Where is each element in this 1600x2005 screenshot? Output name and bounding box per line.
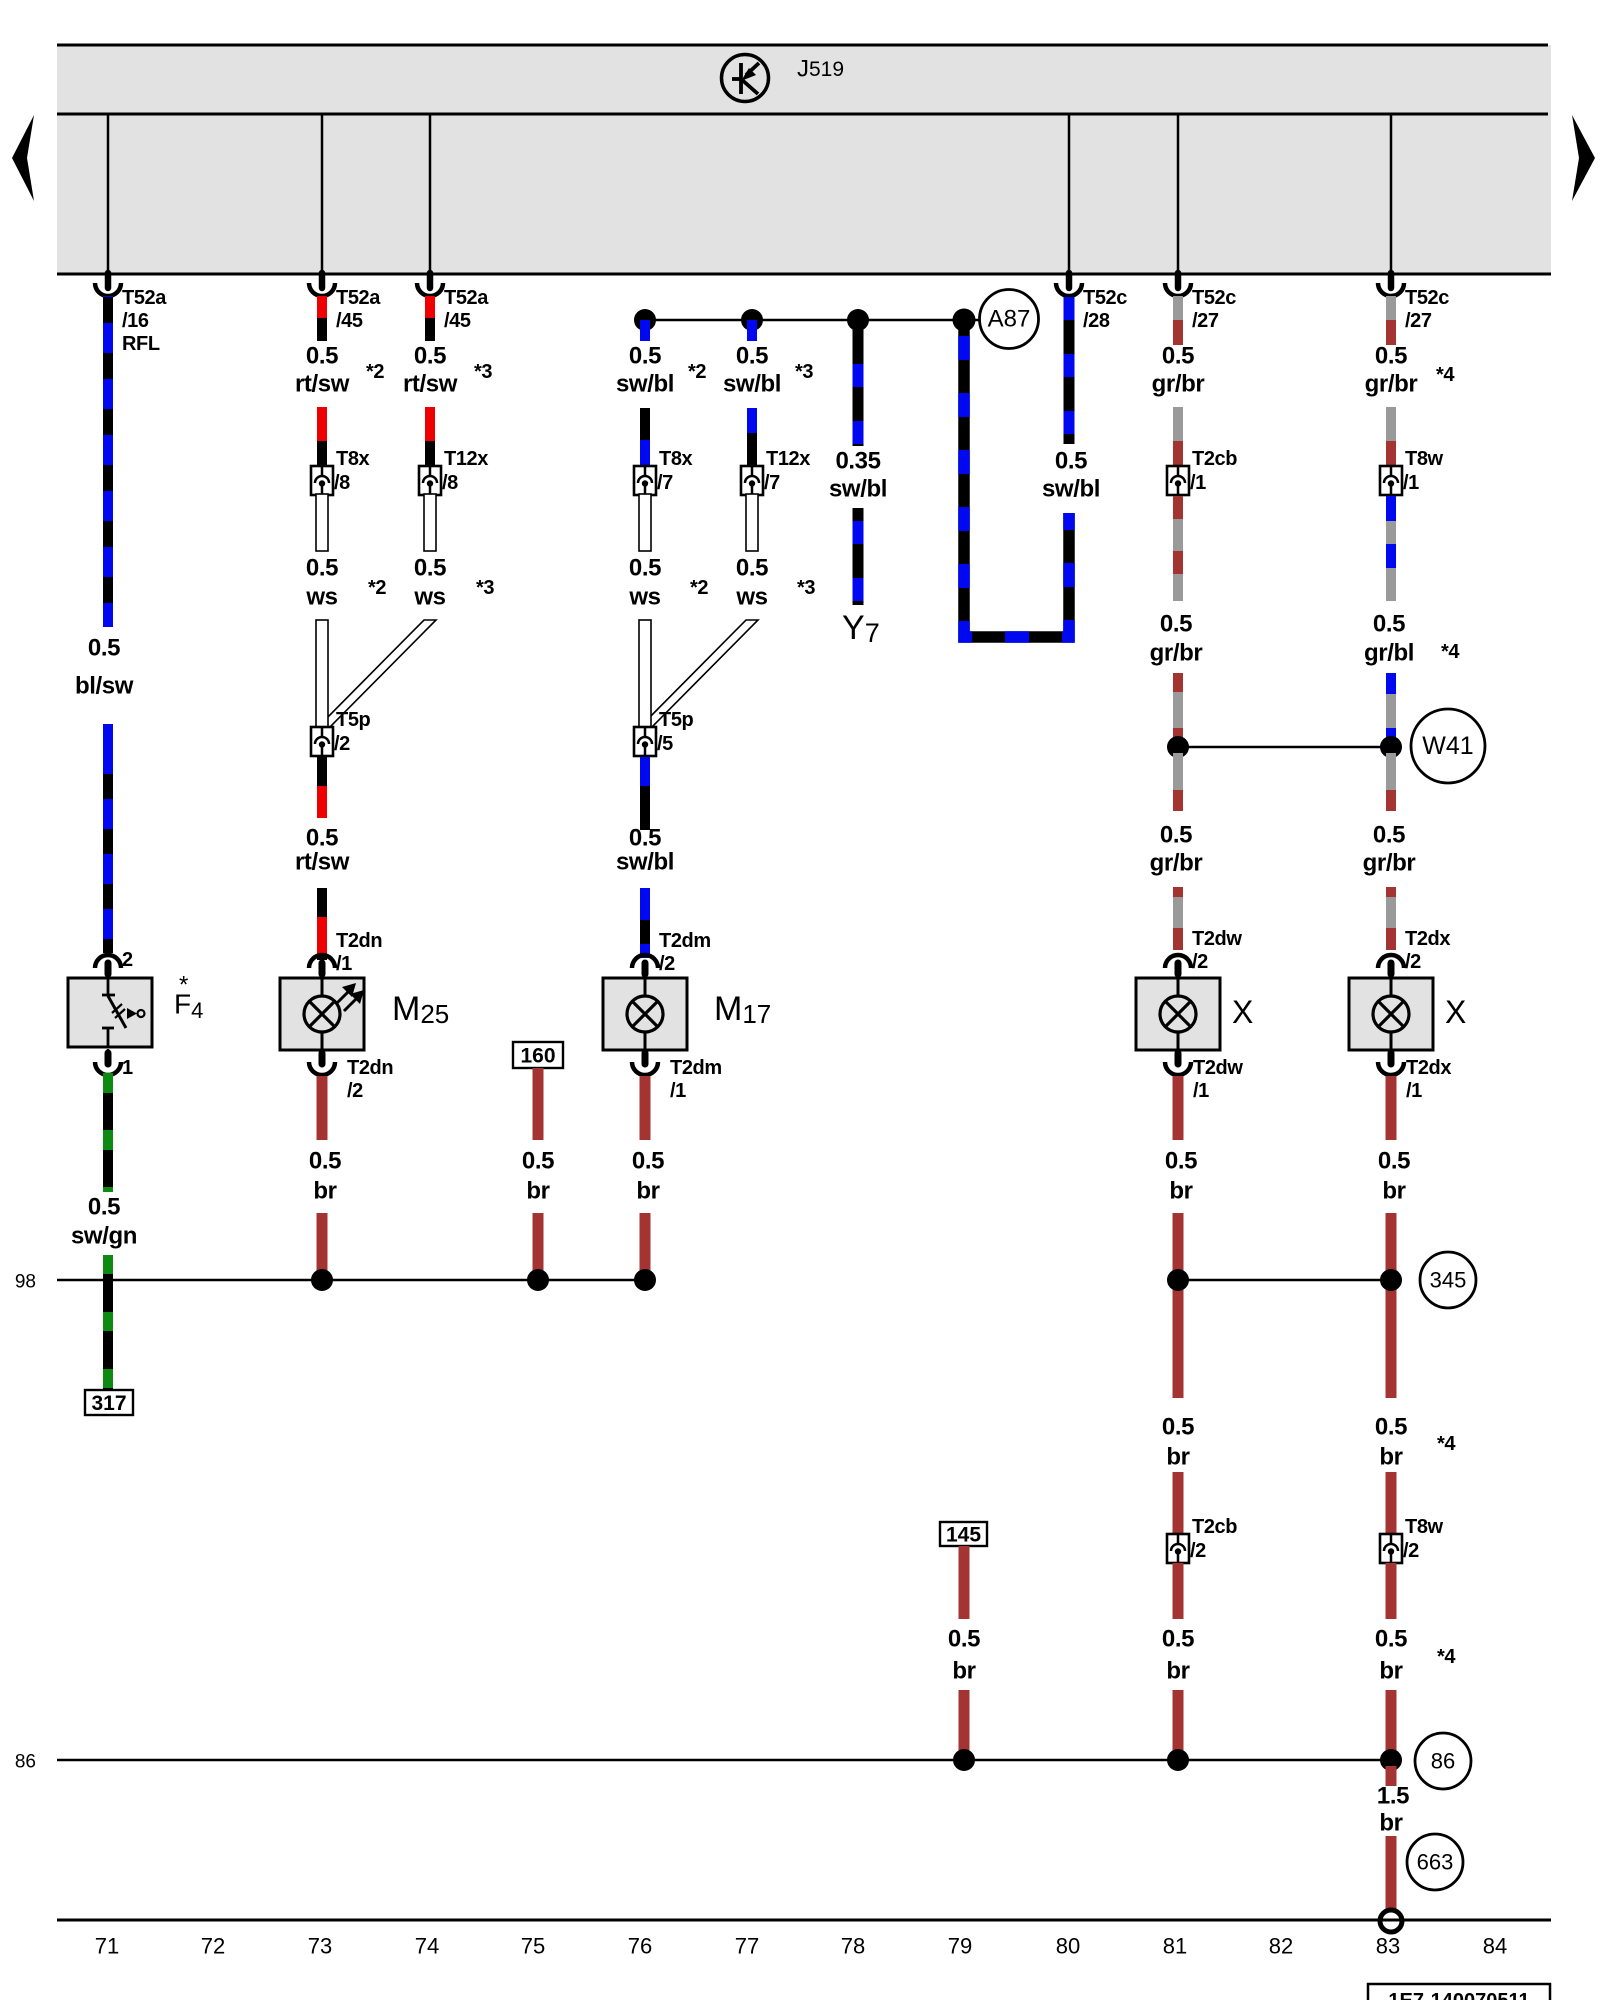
lamp M17 bottom pin T2dm/1 — [644, 1049, 647, 1058]
svg-text:T5p: T5p — [336, 709, 371, 731]
svg-text:80: 80 — [1056, 1934, 1080, 1959]
svg-text:0.35: 0.35 — [835, 448, 880, 475]
svg-text:br: br — [1166, 1444, 1189, 1471]
wire 0.5 ws diagonal from track 77 — [640, 620, 758, 727]
svg-text:0.5: 0.5 — [1165, 1148, 1197, 1175]
svg-text:83: 83 — [1376, 1934, 1400, 1959]
connector T8x/8 — [311, 466, 333, 495]
J519 internal wire track81 — [1177, 114, 1180, 274]
wire stub sw/bl (track 76) — [640, 320, 650, 341]
lamp M17 (tail lamp bulb) — [603, 978, 687, 1050]
svg-text:0.5: 0.5 — [1160, 822, 1192, 849]
wire 0.5 ws upper (track 77) — [746, 494, 758, 551]
junction dot track76 — [634, 309, 656, 331]
bus wire to A87 — [645, 319, 980, 322]
bottom rail — [57, 1919, 1551, 1922]
svg-text:145: 145 — [946, 1524, 981, 1547]
svg-text:79: 79 — [948, 1934, 972, 1959]
control unit J519 box — [57, 45, 1551, 273]
svg-text:W41: W41 — [1422, 732, 1473, 760]
svg-text:gr/bl: gr/bl — [1364, 640, 1414, 667]
connector T8w/1 — [1380, 466, 1402, 495]
svg-text:75: 75 — [521, 1934, 545, 1959]
svg-text:T52a: T52a — [444, 287, 489, 309]
connector T52c/27 pin at J519 (track 83) — [1388, 273, 1395, 288]
switch F4 bottom pin 1 — [107, 1049, 110, 1058]
wire 0.5 sw/bl to M17 — [640, 888, 650, 920]
wire 0.5 gr/br seg A (track 81) — [1173, 296, 1183, 320]
svg-text:0.5: 0.5 — [1375, 343, 1407, 370]
svg-text:0.5: 0.5 — [1055, 448, 1087, 475]
svg-text:T52a: T52a — [122, 287, 167, 309]
wire 0.5 br below lamp X right — [1386, 1076, 1397, 1140]
svg-text:0.5: 0.5 — [414, 343, 446, 370]
svg-text:*4: *4 — [1436, 364, 1455, 386]
svg-text:T2cb: T2cb — [1192, 1516, 1237, 1538]
svg-text:/1: /1 — [670, 1080, 686, 1102]
svg-text:0.5: 0.5 — [306, 825, 338, 852]
connector T5p/2 — [311, 727, 333, 756]
svg-text:T8x: T8x — [659, 448, 693, 470]
svg-text:ws: ws — [628, 584, 660, 611]
svg-text:*4: *4 — [1437, 1433, 1456, 1455]
svg-text:ws: ws — [413, 584, 445, 611]
svg-text:rt/sw: rt/sw — [295, 849, 350, 876]
left page arrow — [12, 115, 34, 201]
wire 0.5 rt/sw to M25 — [317, 888, 327, 917]
svg-text:/1: /1 — [1406, 1080, 1422, 1102]
wire 0.5 rt/sw seg A (track 73) — [317, 296, 327, 318]
svg-text:160: 160 — [520, 1045, 555, 1068]
svg-text:/2: /2 — [1403, 1540, 1419, 1562]
svg-text:/2: /2 — [347, 1080, 363, 1102]
wire 0.5 br to node 86 — [959, 1690, 970, 1755]
wire 0.5 ws lower (track 73) — [316, 620, 328, 727]
svg-text:T12x: T12x — [444, 448, 488, 470]
svg-text:br: br — [1379, 1444, 1402, 1471]
wire 0.5 br to node 98 — [533, 1213, 544, 1272]
wire 0.5 ws upper (track 74) — [424, 494, 436, 551]
svg-text:*3: *3 — [476, 577, 494, 599]
svg-text:/8: /8 — [442, 472, 458, 494]
svg-text:br: br — [1379, 1658, 1402, 1685]
svg-text:0.5: 0.5 — [1162, 1626, 1194, 1653]
wire 0.35 sw/bl lower to Y7 — [853, 508, 864, 605]
wire 0.5 br below M17 — [640, 1076, 651, 1140]
svg-text:0.5: 0.5 — [1373, 822, 1405, 849]
svg-text:*4: *4 — [1437, 1646, 1456, 1668]
wire sw/bl seg B (track 76) — [640, 408, 650, 440]
svg-text:0.5: 0.5 — [88, 635, 120, 662]
wire 0.5 sw/bl U-loop (tracks 79-80) — [964, 322, 1069, 637]
lamp X top pin T2dw/2 — [1165, 955, 1191, 968]
svg-text:/5: /5 — [657, 733, 673, 755]
svg-text:663: 663 — [1417, 1850, 1454, 1875]
svg-text:sw/bl: sw/bl — [829, 476, 887, 503]
svg-text:rt/sw: rt/sw — [295, 371, 350, 398]
wire 0.5 gr/br seg B — [1386, 407, 1396, 441]
wire 0.5 br to T8w/2 — [1386, 1472, 1397, 1534]
svg-text:/7: /7 — [764, 472, 780, 494]
wire 0.5 sw/gn upper — [103, 1073, 113, 1192]
switch F4 top pin 2 — [95, 955, 121, 968]
svg-text:T2cb: T2cb — [1192, 448, 1237, 470]
wire 0.5 ws upper (track 73) — [316, 494, 328, 551]
svg-text:ws: ws — [305, 584, 337, 611]
wire 0.5 gr/br to node W41 — [1173, 673, 1183, 692]
svg-text:T8w: T8w — [1405, 1516, 1444, 1538]
svg-text:sw/gn: sw/gn — [71, 1223, 137, 1250]
switch F4 (brake pedal switch) — [68, 978, 152, 1047]
svg-text:/2: /2 — [1190, 1540, 1206, 1562]
wire 0.5 gr/bl below T8w — [1386, 496, 1396, 521]
svg-text:br: br — [313, 1178, 336, 1205]
svg-text:T52c: T52c — [1192, 287, 1236, 309]
terminal 145 — [940, 1522, 987, 1546]
junction dot track81 node345 — [1167, 1269, 1189, 1291]
wire stub sw/bl (track 77) — [747, 320, 757, 341]
svg-text:RFL: RFL — [122, 333, 160, 355]
svg-text:0.5: 0.5 — [414, 555, 446, 582]
svg-text:br: br — [1379, 1810, 1402, 1837]
svg-text:T5p: T5p — [659, 709, 694, 731]
svg-text:bl/sw: bl/sw — [75, 673, 134, 700]
svg-text:J519: J519 — [797, 56, 844, 83]
svg-text:gr/br: gr/br — [1150, 640, 1203, 667]
wire 0.5 gr/bl to node W41 — [1386, 673, 1396, 694]
lamp X (license plate light left) — [1136, 978, 1220, 1050]
svg-text:T52c: T52c — [1405, 287, 1449, 309]
wire 0.5 br through node 345 — [1173, 1213, 1184, 1398]
connector T8x/7 — [634, 466, 656, 495]
svg-text:sw/bl: sw/bl — [616, 371, 674, 398]
wire 0.5 br below lamp X — [1173, 1076, 1184, 1140]
svg-text:br: br — [952, 1658, 975, 1685]
connector T52a/45 pin at J519 (track 73) — [319, 273, 326, 288]
svg-text:81: 81 — [1163, 1934, 1187, 1959]
svg-text:/2: /2 — [659, 953, 675, 975]
connector T2cb/1 — [1167, 466, 1189, 495]
lamp M25 (turn signal bulb) — [280, 978, 364, 1050]
svg-text:0.5: 0.5 — [736, 555, 768, 582]
lamp X (license plate light right) — [1349, 978, 1433, 1050]
wire 0.5 bl/sw lower — [103, 724, 113, 953]
J519 internal wire track80 — [1068, 114, 1071, 274]
svg-text:74: 74 — [415, 1934, 439, 1959]
svg-text:86: 86 — [15, 1752, 36, 1773]
svg-text:br: br — [526, 1178, 549, 1205]
wire 0.5 sw/bl upper (track 80) — [1064, 296, 1075, 444]
J519 control-unit symbol (circle with K arrow) — [722, 55, 769, 102]
connector T2cb/2 — [1167, 1534, 1189, 1563]
svg-text:br: br — [1169, 1178, 1192, 1205]
svg-text:sw/bl: sw/bl — [616, 849, 674, 876]
svg-text:/16: /16 — [122, 310, 149, 332]
wire 0.5 gr/br to lamp X — [1386, 887, 1396, 897]
svg-text:0.5: 0.5 — [1162, 343, 1194, 370]
junction dot track73 node98 — [311, 1269, 333, 1291]
wire 0.5 br to T2cb/2 — [1173, 1472, 1184, 1534]
junction dot W41 (track 83) — [1380, 736, 1402, 758]
svg-text:T2dx: T2dx — [1405, 928, 1450, 950]
junction dot track81 node86 — [1167, 1749, 1189, 1771]
node W41 connection line — [1178, 746, 1391, 749]
svg-text:*2: *2 — [688, 361, 706, 383]
lamp X right bottom pin T2dx/1 — [1390, 1049, 1393, 1058]
ground terminal ring 663 — [1380, 1910, 1402, 1932]
wire 0.5 rt/sw below T5p — [317, 757, 327, 786]
junction dot track83 node86 — [1380, 1749, 1402, 1771]
connector T8w/2 — [1380, 1534, 1402, 1563]
svg-text:98: 98 — [15, 1272, 36, 1293]
svg-text:0.5: 0.5 — [629, 555, 661, 582]
svg-text:T2dn: T2dn — [347, 1057, 393, 1079]
svg-text:73: 73 — [308, 1934, 332, 1959]
svg-text:br: br — [1166, 1658, 1189, 1685]
svg-text:345: 345 — [1430, 1268, 1467, 1293]
wire 0.5 ws upper (track 76) — [639, 494, 651, 551]
svg-text:*2: *2 — [690, 577, 708, 599]
wire 0.5 gr/br below node — [1386, 753, 1396, 790]
connector T52c/27 pin at J519 (track 81) — [1175, 273, 1182, 288]
wire 0.5 br from 160 — [533, 1068, 544, 1140]
svg-text:0.5: 0.5 — [948, 1626, 980, 1653]
svg-text:78: 78 — [841, 1934, 865, 1959]
J519 internal wire track83 — [1390, 114, 1393, 274]
svg-text:/28: /28 — [1083, 310, 1110, 332]
svg-text:/1: /1 — [336, 953, 352, 975]
lamp M17 top pin T2dm/2 — [632, 955, 658, 968]
svg-text:br: br — [1382, 1178, 1405, 1205]
junction dot track75 node98 — [527, 1269, 549, 1291]
svg-text:*3: *3 — [795, 361, 813, 383]
svg-text:/7: /7 — [657, 472, 673, 494]
connector A87 — [980, 290, 1039, 349]
svg-text:gr/br: gr/br — [1150, 850, 1203, 877]
wire 0.35 sw/bl upper (track 78) — [853, 320, 864, 446]
svg-text:X: X — [1232, 994, 1253, 1030]
svg-text:0.5: 0.5 — [309, 1148, 341, 1175]
wire 0.5 gr/br below node — [1173, 753, 1183, 790]
svg-text:/2: /2 — [1405, 951, 1421, 973]
svg-text:br: br — [636, 1178, 659, 1205]
svg-text:T2dx: T2dx — [1406, 1057, 1451, 1079]
svg-text:0.5: 0.5 — [1378, 1148, 1410, 1175]
svg-text:1: 1 — [122, 1057, 133, 1079]
junction dot track77 — [741, 309, 763, 331]
wire 0.5 bl/sw upper (track 71) — [103, 296, 113, 627]
svg-text:X: X — [1445, 994, 1466, 1030]
wire 0.5 br below T8w/2 — [1386, 1563, 1397, 1619]
svg-text:0.5: 0.5 — [1375, 1414, 1407, 1441]
junction dot track76 node98 — [634, 1269, 656, 1291]
svg-text:77: 77 — [735, 1934, 759, 1959]
connector T12x/8 — [419, 466, 441, 495]
ground connection 317 — [85, 1390, 133, 1415]
wire 0.5 br below T2cb/2 — [1173, 1563, 1184, 1619]
svg-text:T12x: T12x — [766, 448, 810, 470]
junction dot track79 node86 — [953, 1749, 975, 1771]
svg-text:/45: /45 — [336, 310, 363, 332]
svg-text:/1: /1 — [1403, 472, 1419, 494]
svg-text:0.5: 0.5 — [629, 343, 661, 370]
svg-text:T52a: T52a — [336, 287, 381, 309]
svg-text:ws: ws — [735, 584, 767, 611]
svg-text:T52c: T52c — [1083, 287, 1127, 309]
svg-text:T2dm: T2dm — [670, 1057, 722, 1079]
svg-text:/45: /45 — [444, 310, 471, 332]
node 86 — [1415, 1733, 1471, 1789]
svg-text:*2: *2 — [366, 361, 384, 383]
lamp M25 bottom pin T2dn/2 — [321, 1049, 324, 1058]
wire 0.5 br to node 86 — [1386, 1690, 1397, 1755]
wire 0.5 br from 145 — [959, 1546, 970, 1619]
svg-text:T2dn: T2dn — [336, 930, 382, 952]
svg-text:0.5: 0.5 — [629, 825, 661, 852]
svg-text:sw/bl: sw/bl — [1042, 476, 1100, 503]
wire 0.5 br below M25 — [317, 1076, 328, 1140]
svg-text:T2dw: T2dw — [1193, 1057, 1243, 1079]
svg-text:gr/br: gr/br — [1152, 371, 1205, 398]
connector T12x/7 — [741, 466, 763, 495]
wire 0.5 gr/br below T2cb — [1173, 496, 1183, 519]
svg-text:0.5: 0.5 — [306, 343, 338, 370]
svg-text:/8: /8 — [334, 472, 350, 494]
connector T52a/45 pin at J519 (track 74) — [427, 273, 434, 288]
svg-text:T2dw: T2dw — [1192, 928, 1242, 950]
node 663 — [1407, 1834, 1463, 1890]
svg-text:/2: /2 — [1192, 951, 1208, 973]
node 345 — [1420, 1252, 1476, 1308]
svg-text:T8x: T8x — [336, 448, 370, 470]
junction dot track83 node345 — [1380, 1269, 1402, 1291]
svg-text:*4: *4 — [1441, 641, 1460, 663]
svg-text:0.5: 0.5 — [88, 1194, 120, 1221]
connector T52a/16 pin at J519 — [105, 273, 112, 288]
svg-text:*2: *2 — [368, 577, 386, 599]
junction dot track79 — [953, 309, 976, 332]
svg-text:0.5: 0.5 — [1160, 611, 1192, 638]
connector T5p/5 — [634, 727, 656, 756]
svg-text:gr/br: gr/br — [1363, 850, 1416, 877]
svg-text:0.5: 0.5 — [306, 555, 338, 582]
right page arrow — [1572, 115, 1595, 201]
svg-text:T8w: T8w — [1405, 448, 1444, 470]
svg-text:82: 82 — [1269, 1934, 1293, 1959]
lamp X right top pin T2dx/2 — [1378, 955, 1404, 968]
svg-text:86: 86 — [1431, 1749, 1455, 1774]
svg-text:sw/bl: sw/bl — [723, 371, 781, 398]
svg-text:gr/br: gr/br — [1365, 371, 1418, 398]
svg-text:84: 84 — [1483, 1934, 1507, 1959]
wire 0.5 gr/br seg B — [1173, 407, 1183, 441]
svg-text:A87: A87 — [988, 306, 1031, 333]
terminal 160 — [513, 1042, 563, 1068]
wire 0.5 gr/br to lamp X — [1173, 887, 1183, 897]
wire 0.5 rt/sw seg A (track 74) — [425, 296, 435, 318]
svg-text:/27: /27 — [1192, 310, 1219, 332]
svg-text:rt/sw: rt/sw — [403, 371, 458, 398]
node 345 line — [1178, 1279, 1391, 1281]
wire 0.5 br to node 98 — [317, 1213, 328, 1272]
lamp X bottom pin T2dw/1 — [1177, 1049, 1180, 1058]
wire 0.5 br through node 345 — [1386, 1213, 1397, 1398]
svg-text:72: 72 — [201, 1934, 225, 1959]
svg-text:*: * — [179, 972, 188, 999]
wire 0.5 ws diagonal from track 74 — [318, 620, 436, 727]
J519 internal wire track73 — [321, 114, 324, 274]
svg-text:0.5: 0.5 — [632, 1148, 664, 1175]
svg-text:/1: /1 — [1190, 472, 1206, 494]
svg-text:/2: /2 — [334, 733, 350, 755]
wire 0.5 rt/sw seg B — [317, 407, 327, 441]
wire 0.5 br to node 86 — [1173, 1690, 1184, 1755]
wire 0.5 sw/bl below T5p — [640, 757, 650, 786]
svg-text:*3: *3 — [474, 361, 492, 383]
J519 internal wire track71 — [107, 114, 110, 274]
svg-text:1E7-140070511: 1E7-140070511 — [1388, 1990, 1529, 2000]
wire 0.5 br to node 98 — [640, 1213, 651, 1272]
connector T52c/28 pin at J519 (track 80) — [1066, 273, 1073, 288]
ground node 86 line — [57, 1759, 1391, 1761]
svg-text:T2dm: T2dm — [659, 930, 711, 952]
svg-text:71: 71 — [95, 1934, 119, 1959]
ground node 98 line — [57, 1279, 645, 1281]
wire 0.5 ws lower (track 76) — [639, 620, 651, 727]
wire 0.5 rt/sw seg B — [425, 407, 435, 441]
junction dot track78 — [847, 309, 869, 331]
wire 1.5 br stub below node 86 — [1386, 1766, 1397, 1786]
svg-text:0.5: 0.5 — [1373, 611, 1405, 638]
svg-text:0.5: 0.5 — [736, 343, 768, 370]
svg-text:76: 76 — [628, 1934, 652, 1959]
svg-text:/1: /1 — [1193, 1080, 1209, 1102]
wire sw/bl seg B (track 77) — [747, 408, 757, 433]
svg-text:0.5: 0.5 — [522, 1148, 554, 1175]
svg-text:0.5: 0.5 — [1162, 1414, 1194, 1441]
svg-text:1.5: 1.5 — [1377, 1783, 1409, 1810]
junction dot W41 (track 81) — [1167, 736, 1189, 758]
svg-text:317: 317 — [91, 1392, 126, 1415]
svg-text:2: 2 — [122, 949, 133, 971]
node W41 — [1411, 709, 1485, 783]
J519 internal wire track74 — [429, 114, 432, 274]
lamp M25 top pin T2dn/1 — [309, 955, 335, 968]
svg-text:0.5: 0.5 — [1375, 1626, 1407, 1653]
M25 light arrows — [336, 992, 348, 1004]
svg-text:/27: /27 — [1405, 310, 1432, 332]
wire 0.5 sw/gn lower to ground 317 — [103, 1255, 113, 1390]
diagram number box — [1368, 1984, 1550, 2005]
wire 0.5 gr/br seg A (track 83) — [1386, 296, 1396, 320]
svg-text:*3: *3 — [797, 577, 815, 599]
